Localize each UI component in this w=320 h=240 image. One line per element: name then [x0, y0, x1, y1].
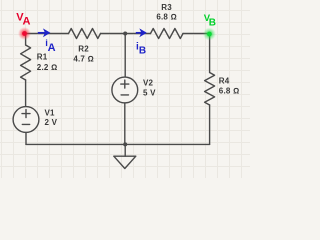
- svg-text:V1: V1: [45, 109, 56, 118]
- svg-text:6.8 Ω: 6.8 Ω: [219, 87, 240, 96]
- svg-text:B: B: [209, 18, 216, 29]
- junction dot ground rail: [123, 142, 127, 146]
- wire R3 to VB: [183, 33, 210, 35]
- svg-text:R2: R2: [78, 45, 89, 54]
- wire VB node down to R4: [209, 34, 211, 73]
- V1 plus sign: [22, 110, 30, 118]
- wire V1 to bottom rail: [25, 132, 27, 144]
- resistor R4: [205, 73, 215, 106]
- svg-text:6.8 Ω: 6.8 Ω: [156, 12, 177, 21]
- V2 minus sign: [121, 94, 128, 96]
- svg-text:2.2 Ω: 2.2 Ω: [37, 63, 58, 72]
- wire VA node down to R1: [25, 34, 27, 46]
- svg-text:2 V: 2 V: [45, 118, 58, 127]
- ground triangle: [114, 156, 136, 168]
- V2 plus sign: [121, 80, 129, 88]
- bottom rail wire: [26, 143, 210, 145]
- wire V2 to ground rail: [124, 103, 126, 144]
- svg-text:4.7 Ω: 4.7 Ω: [73, 55, 94, 64]
- svg-text:B: B: [139, 46, 146, 57]
- wire R1 to V1: [25, 80, 27, 107]
- svg-text:R4: R4: [219, 76, 230, 85]
- svg-text:R1: R1: [37, 53, 48, 62]
- svg-text:V2: V2: [143, 78, 154, 87]
- source V2 circle: [112, 77, 138, 103]
- current label iB: [136, 42, 146, 57]
- junction dot top (node above V2): [123, 32, 127, 36]
- V1 minus sign: [22, 123, 29, 125]
- svg-text:R3: R3: [161, 3, 172, 12]
- wire R4 to bottom rail: [209, 105, 211, 144]
- node B green glow dot: [203, 28, 216, 41]
- resistor R1: [21, 45, 31, 80]
- node A red glow dot: [18, 27, 31, 40]
- resistor R2: [69, 29, 101, 39]
- node label VB: [204, 13, 216, 29]
- resistor R3: [151, 29, 184, 39]
- wire R2 to R3: [101, 33, 151, 35]
- svg-text:A: A: [23, 16, 31, 28]
- svg-text:A: A: [48, 42, 56, 54]
- ground stem: [124, 144, 126, 156]
- svg-text:5 V: 5 V: [143, 89, 156, 98]
- current arrow iB: [136, 29, 146, 36]
- source V1 circle: [13, 107, 39, 133]
- wire top VA to R2: [26, 33, 69, 35]
- node label VA: [16, 12, 30, 28]
- current label iA: [45, 38, 55, 54]
- wire junction down to V2: [124, 34, 126, 78]
- current arrow iA: [38, 29, 50, 36]
